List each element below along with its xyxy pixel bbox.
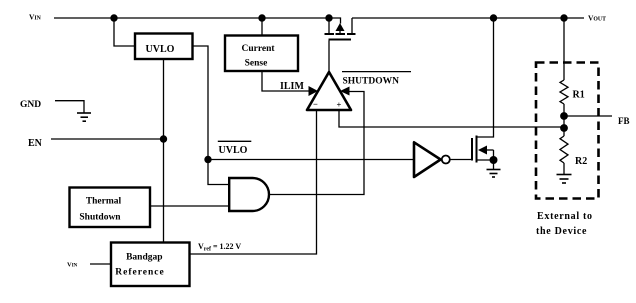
svg-text:GND: GND (20, 100, 41, 110)
node junction VIN-CurrentSense (258, 14, 265, 21)
wire VIN rail (54, 17, 329, 19)
wire drain stub (477, 18, 494, 137)
node junction VIN-UVLO (110, 14, 117, 21)
node EN junction (160, 135, 167, 142)
svg-text:Thermal: Thermal (86, 197, 122, 207)
op-amp U1 gate-drive amplifier (307, 72, 351, 110)
wire VIN to UVLO (114, 18, 135, 46)
svg-text:UVLO: UVLO (219, 145, 248, 156)
wire body-source tie (493, 150, 495, 169)
wire Current Sense to ILIM (262, 71, 309, 91)
wire VIN to bandgap (90, 263, 111, 265)
wire GND (55, 101, 84, 113)
pin source contact (325, 33, 335, 35)
wire UVLO output right (193, 46, 209, 160)
svg-text:−: − (313, 99, 318, 109)
svg-text:the Device: the Device (536, 226, 587, 237)
arrow SHUTDOWN into amplifier (340, 87, 350, 96)
wire R2 to ground (563, 163, 565, 174)
wire body jog (331, 18, 341, 24)
pin gate bar (471, 138, 473, 161)
node inverter bubble (442, 156, 450, 164)
ground R2 (557, 175, 572, 184)
wire source leg (328, 18, 330, 34)
arrow ILIM into amplifier (309, 86, 319, 96)
node UVLO-bar junction (204, 156, 211, 163)
node junction VOUT-drain (490, 14, 497, 21)
arrow body (478, 146, 487, 155)
wire FB node to R2 (563, 128, 565, 136)
wire plus input to FB (339, 110, 564, 127)
node junction VOUT-R1 (560, 14, 567, 21)
pin gate bar (329, 39, 352, 41)
wire VOUT rail (352, 17, 584, 19)
arrow body diode (336, 23, 345, 31)
pin drain contact (347, 33, 356, 35)
wire drain leg (351, 18, 353, 34)
block UVLO (135, 34, 193, 60)
node SHUTDOWN label with overline (342, 71, 411, 73)
node junction FB external (560, 112, 568, 120)
ground GND pin (77, 113, 91, 121)
wire thermal output to AND input (150, 205, 230, 207)
node junction FB internal (560, 124, 568, 132)
wire UVLO-bar to inverter (208, 159, 414, 161)
pin channel bar (476, 136, 478, 163)
gate AND U2 (229, 178, 269, 211)
transistor Q2 NMOS discharge (472, 18, 498, 169)
svg-text:R2: R2 (575, 156, 587, 167)
block Thermal Shutdown (70, 188, 151, 228)
svg-text:EN: EN (28, 138, 43, 149)
svg-text:Reference: Reference (115, 268, 164, 278)
svg-text:R1: R1 (573, 90, 585, 101)
wire UVLO-bar to AND input (208, 160, 229, 185)
resistor R2 (560, 136, 568, 163)
wire source stub (477, 159, 494, 161)
transistor Q1 PMOS pass element (325, 14, 356, 39)
pin body contact (336, 33, 346, 35)
node UVLO-bar label with overline (218, 140, 252, 142)
wire rail to Current Sense (261, 18, 263, 36)
svg-text:UVLO: UVLO (146, 44, 175, 55)
svg-text:External to: External to (537, 211, 593, 222)
wire minus input to Vref (190, 110, 317, 254)
wire VOUT to R1 (563, 18, 565, 80)
svg-text:SHUTDOWN: SHUTDOWN (343, 77, 400, 87)
wire shutdown from AND (269, 92, 364, 195)
svg-text:VIN: VIN (67, 262, 78, 269)
wire FB pin (564, 115, 612, 117)
svg-text:Shutdown: Shutdown (79, 213, 121, 223)
ground NMOS source (487, 170, 501, 178)
svg-text:Sense: Sense (245, 59, 268, 69)
svg-text:ILIM: ILIM (280, 81, 304, 92)
svg-text:+: + (337, 100, 342, 110)
gate inverter U3 (414, 142, 441, 177)
wire UVLO bottom to bandgap (163, 59, 165, 243)
svg-text:FB: FB (618, 116, 630, 126)
block Bandgap Reference (111, 243, 190, 287)
resistor R1 (560, 80, 568, 104)
wire amplifier output to PMOS gate (328, 41, 330, 73)
svg-text:Current: Current (241, 44, 275, 54)
wire inverter output to NMOS gate (450, 159, 472, 161)
node source junction (490, 156, 498, 164)
node junction VIN-PMOS (325, 14, 332, 21)
svg-text:Bandgap: Bandgap (126, 253, 162, 263)
block dashed external box (536, 63, 599, 199)
wire EN (51, 138, 164, 140)
wire body stub (487, 149, 494, 151)
block Current Sense (225, 36, 298, 72)
wire R1 to FB node (563, 104, 565, 128)
